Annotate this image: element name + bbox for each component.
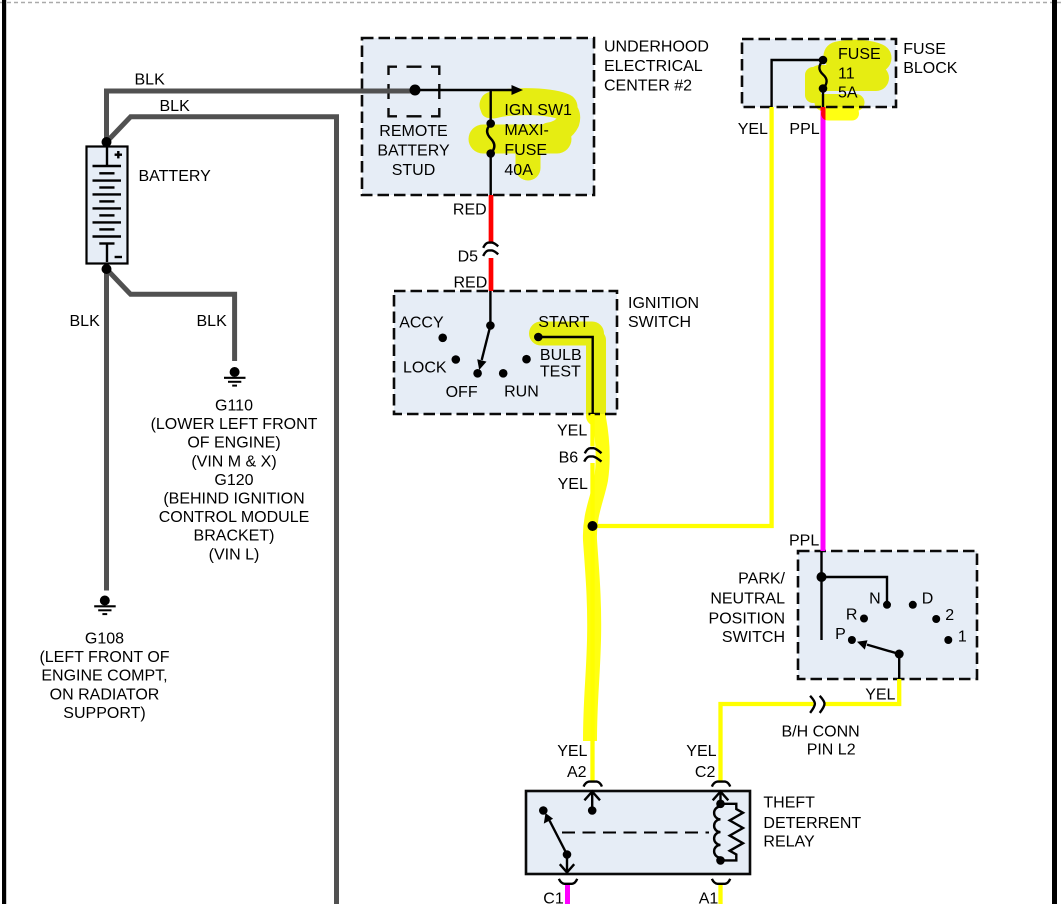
- svg-text:11: 11: [838, 65, 855, 82]
- svg-text:BLK: BLK: [160, 98, 191, 115]
- svg-text:P: P: [835, 626, 846, 643]
- svg-text:DETERRENT: DETERRENT: [763, 815, 861, 832]
- svg-text:G110: G110: [215, 398, 253, 415]
- svg-text:SWITCH: SWITCH: [722, 629, 785, 646]
- svg-text:1: 1: [958, 629, 967, 646]
- svg-text:40A: 40A: [504, 162, 533, 179]
- svg-text:(LEFT FRONT OF: (LEFT FRONT OF: [39, 649, 169, 666]
- svg-text:(VIN M & X): (VIN M & X): [191, 453, 276, 470]
- svg-text:RUN: RUN: [504, 384, 539, 401]
- svg-text:FUSE: FUSE: [838, 46, 881, 63]
- svg-text:R: R: [846, 607, 858, 624]
- svg-text:A2: A2: [567, 764, 587, 781]
- svg-text:D: D: [922, 591, 934, 608]
- svg-text:C2: C2: [695, 764, 716, 781]
- svg-text:ACCY: ACCY: [399, 315, 444, 332]
- svg-text:MAXI-: MAXI-: [504, 122, 548, 139]
- svg-text:POSITION: POSITION: [709, 611, 785, 628]
- svg-text:ON RADIATOR: ON RADIATOR: [50, 686, 160, 703]
- svg-text:YEL: YEL: [865, 687, 895, 704]
- svg-text:G108: G108: [85, 631, 124, 648]
- svg-text:BATTERY: BATTERY: [139, 168, 212, 185]
- svg-text:BLOCK: BLOCK: [903, 60, 958, 77]
- svg-text:B6: B6: [559, 450, 579, 467]
- svg-text:OFF: OFF: [446, 384, 478, 401]
- svg-text:BULB: BULB: [540, 347, 582, 364]
- svg-text:G120: G120: [214, 472, 253, 489]
- svg-text:BATTERY: BATTERY: [377, 143, 450, 160]
- svg-text:FUSE: FUSE: [504, 142, 547, 159]
- svg-text:YEL: YEL: [557, 743, 587, 760]
- svg-text:YEL: YEL: [558, 476, 588, 493]
- svg-text:TEST: TEST: [540, 363, 581, 380]
- svg-text:OF ENGINE): OF ENGINE): [187, 435, 280, 452]
- svg-text:NEUTRAL: NEUTRAL: [710, 591, 785, 608]
- svg-text:C1: C1: [543, 891, 564, 904]
- svg-text:SUPPORT): SUPPORT): [63, 705, 145, 722]
- svg-text:YEL: YEL: [557, 423, 587, 440]
- svg-text:IGN SW1: IGN SW1: [504, 102, 572, 119]
- svg-text:RED: RED: [453, 202, 487, 219]
- svg-text:ELECTRICAL: ELECTRICAL: [604, 58, 703, 75]
- svg-text:2: 2: [945, 607, 954, 624]
- svg-text:RED: RED: [454, 275, 488, 292]
- svg-text:(VIN L): (VIN L): [209, 546, 260, 563]
- svg-text:LOCK: LOCK: [403, 359, 447, 376]
- svg-text:PPL: PPL: [789, 121, 819, 138]
- svg-text:A1: A1: [699, 891, 719, 904]
- svg-text:BRACKET): BRACKET): [194, 528, 275, 545]
- svg-text:THEFT: THEFT: [763, 795, 815, 812]
- svg-text:RELAY: RELAY: [763, 834, 815, 851]
- svg-text:STUD: STUD: [392, 162, 436, 179]
- svg-text:FUSE: FUSE: [903, 41, 946, 58]
- svg-text:CENTER #2: CENTER #2: [604, 78, 692, 95]
- svg-text:UNDERHOOD: UNDERHOOD: [604, 39, 709, 56]
- svg-text:D5: D5: [458, 249, 479, 266]
- svg-text:B/H CONN: B/H CONN: [782, 724, 860, 741]
- svg-text:CONTROL MODULE: CONTROL MODULE: [159, 509, 310, 526]
- svg-text:BLK: BLK: [197, 313, 228, 330]
- svg-text:PARK/: PARK/: [738, 571, 785, 588]
- svg-text:ENGINE COMPT,: ENGINE COMPT,: [41, 668, 167, 685]
- svg-text:YEL: YEL: [686, 743, 716, 760]
- svg-text:PPL: PPL: [789, 533, 819, 550]
- svg-text:REMOTE: REMOTE: [379, 123, 447, 140]
- svg-text:N: N: [869, 591, 881, 608]
- svg-text:IGNITION: IGNITION: [628, 295, 699, 312]
- svg-text:YEL: YEL: [738, 121, 768, 138]
- svg-text:PIN L2: PIN L2: [807, 742, 856, 759]
- svg-text:START: START: [538, 314, 589, 331]
- svg-text:BLK: BLK: [135, 72, 166, 89]
- svg-text:BLK: BLK: [70, 313, 101, 330]
- svg-text:(BEHIND IGNITION: (BEHIND IGNITION: [163, 491, 304, 508]
- svg-text:SWITCH: SWITCH: [628, 314, 691, 331]
- svg-text:5A: 5A: [838, 85, 858, 102]
- svg-text:(LOWER LEFT FRONT: (LOWER LEFT FRONT: [151, 416, 318, 433]
